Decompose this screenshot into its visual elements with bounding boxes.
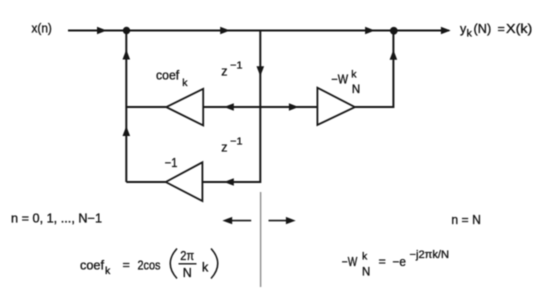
wire: branch node to -W triangle input <box>260 106 317 108</box>
big left paren <box>170 249 177 279</box>
label coefk (triangle gain) <box>156 69 188 89</box>
wire: -1 row left segment (triangle output to left vertical) <box>126 181 165 183</box>
svg-text:N: N <box>183 266 192 280</box>
svg-text:2π: 2π <box>180 249 194 263</box>
svg-text:k: k <box>351 69 357 81</box>
arrowhead: up into node B riser <box>390 50 398 60</box>
svg-text:k: k <box>202 261 209 275</box>
svg-text:N: N <box>352 84 360 96</box>
arrowhead: up into node A on left vertical <box>123 50 131 60</box>
wire: -W triangle output to node B riser <box>355 31 394 108</box>
svg-text:coef: coef <box>156 69 180 83</box>
arrowhead: left into -1 triangle <box>224 178 234 185</box>
label yk(N) = X(k) <box>460 22 532 40</box>
svg-text:−1: −1 <box>165 156 178 170</box>
arrowhead: top line before node B <box>365 27 375 34</box>
svg-text:−1: −1 <box>230 135 242 147</box>
svg-text:k: k <box>362 251 368 263</box>
svg-text:−e: −e <box>393 255 407 269</box>
arrowhead: left into coef triangle <box>224 103 234 110</box>
svg-text:x(n): x(n) <box>32 22 52 36</box>
svg-text:=: = <box>123 258 130 272</box>
svg-text:−W: −W <box>331 73 348 87</box>
svg-text:−W: −W <box>342 255 358 269</box>
equation -WNk = -e^-j2pik/N <box>342 249 449 278</box>
arrowhead: output <box>441 27 451 34</box>
svg-text:−j2πk/N: −j2πk/N <box>410 249 450 261</box>
svg-text:k: k <box>182 77 188 89</box>
svg-text:N: N <box>362 267 370 279</box>
wire: left feedback vertical at x=126 <box>125 31 127 183</box>
wire: delay branch vertical at x=260 <box>226 31 260 183</box>
svg-text:=: = <box>498 22 505 36</box>
wire: node A to node B (top main line) <box>126 30 394 32</box>
wire: -1 row right segment into triangle base <box>202 181 226 183</box>
svg-text:k: k <box>105 265 111 277</box>
svg-text:2cos: 2cos <box>138 259 161 273</box>
node A junction dot <box>123 27 130 34</box>
gain triangle -1 <box>166 162 203 201</box>
arrowhead: up on left vertical between rows <box>123 126 131 136</box>
gain triangle coefk <box>166 89 203 126</box>
svg-text:=: = <box>379 255 386 269</box>
node B junction dot <box>390 27 398 35</box>
arrow pointing right of divider <box>269 217 296 224</box>
arrowhead: input into node A <box>97 27 107 34</box>
wire: coef row left segment (coef triangle output to left vertical) <box>126 106 166 108</box>
svg-text:z: z <box>221 65 227 79</box>
wire: node B to output <box>394 30 449 32</box>
svg-text:n = N: n = N <box>451 213 481 227</box>
svg-text:k: k <box>467 28 473 40</box>
wire: input x(n) to node A <box>68 30 126 32</box>
gain triangle -WNk <box>317 88 355 125</box>
svg-text:X(k): X(k) <box>506 22 532 36</box>
label z^-1 upper delay <box>221 59 242 78</box>
divider line between n ranges <box>260 192 262 287</box>
arrowhead: top line after branch point <box>220 27 230 34</box>
svg-text:n = 0, 1, ..., N−1: n = 0, 1, ..., N−1 <box>11 212 102 226</box>
arrowhead: down on delay branch <box>257 66 265 76</box>
big right paren <box>211 249 218 279</box>
svg-text:−1: −1 <box>230 59 242 71</box>
svg-text:coef: coef <box>80 259 105 273</box>
arrow pointing left of divider <box>222 217 251 224</box>
wire: coef row right segment (z-1 node to coef triangle input) <box>203 106 260 108</box>
equation coefk = 2cos((2pi/N)k) <box>80 249 218 281</box>
svg-text:(N): (N) <box>474 22 492 36</box>
label -WNk (triangle gain) <box>331 69 360 97</box>
svg-text:z: z <box>221 141 227 155</box>
label z^-1 lower delay <box>221 135 242 154</box>
arrowhead: right into -W triangle <box>289 103 299 110</box>
